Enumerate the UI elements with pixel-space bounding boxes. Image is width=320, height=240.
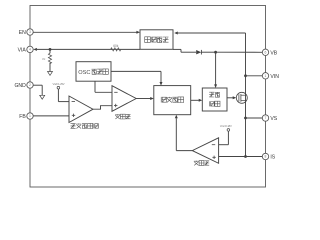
wire VIN to rail	[246, 75, 263, 77]
wire IS line	[219, 156, 263, 158]
wire OSC to logic top	[111, 71, 163, 85]
IC boundary box	[30, 6, 266, 188]
node VIA junction	[49, 48, 52, 51]
pin VB	[262, 49, 277, 56]
wire FB to error amp	[33, 115, 69, 117]
svg-text:OSC: OSC	[78, 70, 90, 76]
wire drive to gate	[227, 96, 236, 99]
wire power to VB rail	[173, 49, 196, 52]
block U-PM 电源管理	[140, 30, 173, 50]
ground GND1 below R-VIA	[48, 72, 53, 76]
wire error amp out	[93, 106, 112, 110]
comparator U-CMP1 比较器	[112, 86, 136, 119]
wire junction down to drive block	[214, 52, 217, 88]
wire logic to drive	[191, 99, 203, 102]
pin EN	[19, 29, 33, 36]
pin VIA	[18, 46, 34, 53]
wire top feedback to power block	[174, 32, 245, 35]
svg-text:2: 2	[29, 83, 31, 87]
wire VS to rail	[246, 117, 263, 119]
diode D1	[196, 50, 215, 55]
op-amp U-EA 误差放大器	[69, 96, 98, 129]
node VB junction	[214, 51, 217, 54]
svg-text:1: 1	[29, 114, 31, 118]
ground GND2 symbol	[40, 95, 45, 99]
svg-text:GND: GND	[14, 83, 26, 89]
pin VS	[262, 115, 277, 122]
svg-text:VIN: VIN	[270, 74, 279, 80]
block U-LOGIC 逻辑控制	[154, 86, 191, 115]
svg-text:1M: 1M	[42, 58, 45, 61]
wire EN to power block	[33, 31, 140, 34]
svg-text:Vcs=0.18V: Vcs=0.18V	[220, 124, 232, 128]
pin GND	[14, 82, 33, 89]
svg-text:VIA: VIA	[18, 47, 27, 53]
transistor Q1 MOSFET	[236, 92, 247, 103]
resistor R-60k on VIA line	[111, 44, 121, 51]
pin FB	[19, 113, 33, 120]
svg-text:6: 6	[265, 50, 267, 54]
svg-text:4: 4	[29, 48, 31, 52]
svg-text:3: 3	[29, 30, 31, 34]
svg-text:EN: EN	[19, 30, 26, 36]
svg-text:8: 8	[265, 155, 267, 159]
pin IS	[262, 153, 276, 160]
reference Vcs=0.18V	[219, 124, 232, 145]
svg-text:60k: 60k	[113, 44, 119, 48]
svg-text:Vref=1.25V: Vref=1.25V	[53, 82, 65, 86]
wire GND pin stub	[33, 85, 42, 95]
node VIN junction	[244, 74, 247, 77]
wire OSC to comparator minus	[95, 81, 112, 92]
svg-text:FB: FB	[19, 114, 26, 120]
resistor R-VIA vertical	[42, 49, 52, 71]
svg-text:1: 1	[265, 74, 267, 78]
wire drain-source rail	[245, 33, 247, 157]
wire comparator2 out to logic	[175, 115, 193, 151]
block U-DRV 悬浮驱动	[202, 88, 227, 111]
reference Vref=1.25V	[53, 82, 69, 102]
node VS junction	[244, 117, 247, 120]
wire VIA line	[33, 48, 140, 51]
wire comparator1 to logic	[136, 97, 154, 100]
wire junction to VB pin	[216, 51, 263, 53]
comparator U-CMP2 比较器	[192, 138, 218, 166]
svg-text:IS: IS	[270, 155, 275, 161]
block U-OSC OSC振荡器	[76, 62, 111, 81]
svg-text:VS: VS	[270, 116, 277, 122]
svg-text:VB: VB	[270, 50, 277, 56]
node IS junction	[244, 155, 247, 158]
svg-text:7: 7	[265, 116, 267, 120]
pin VIN	[262, 73, 279, 80]
